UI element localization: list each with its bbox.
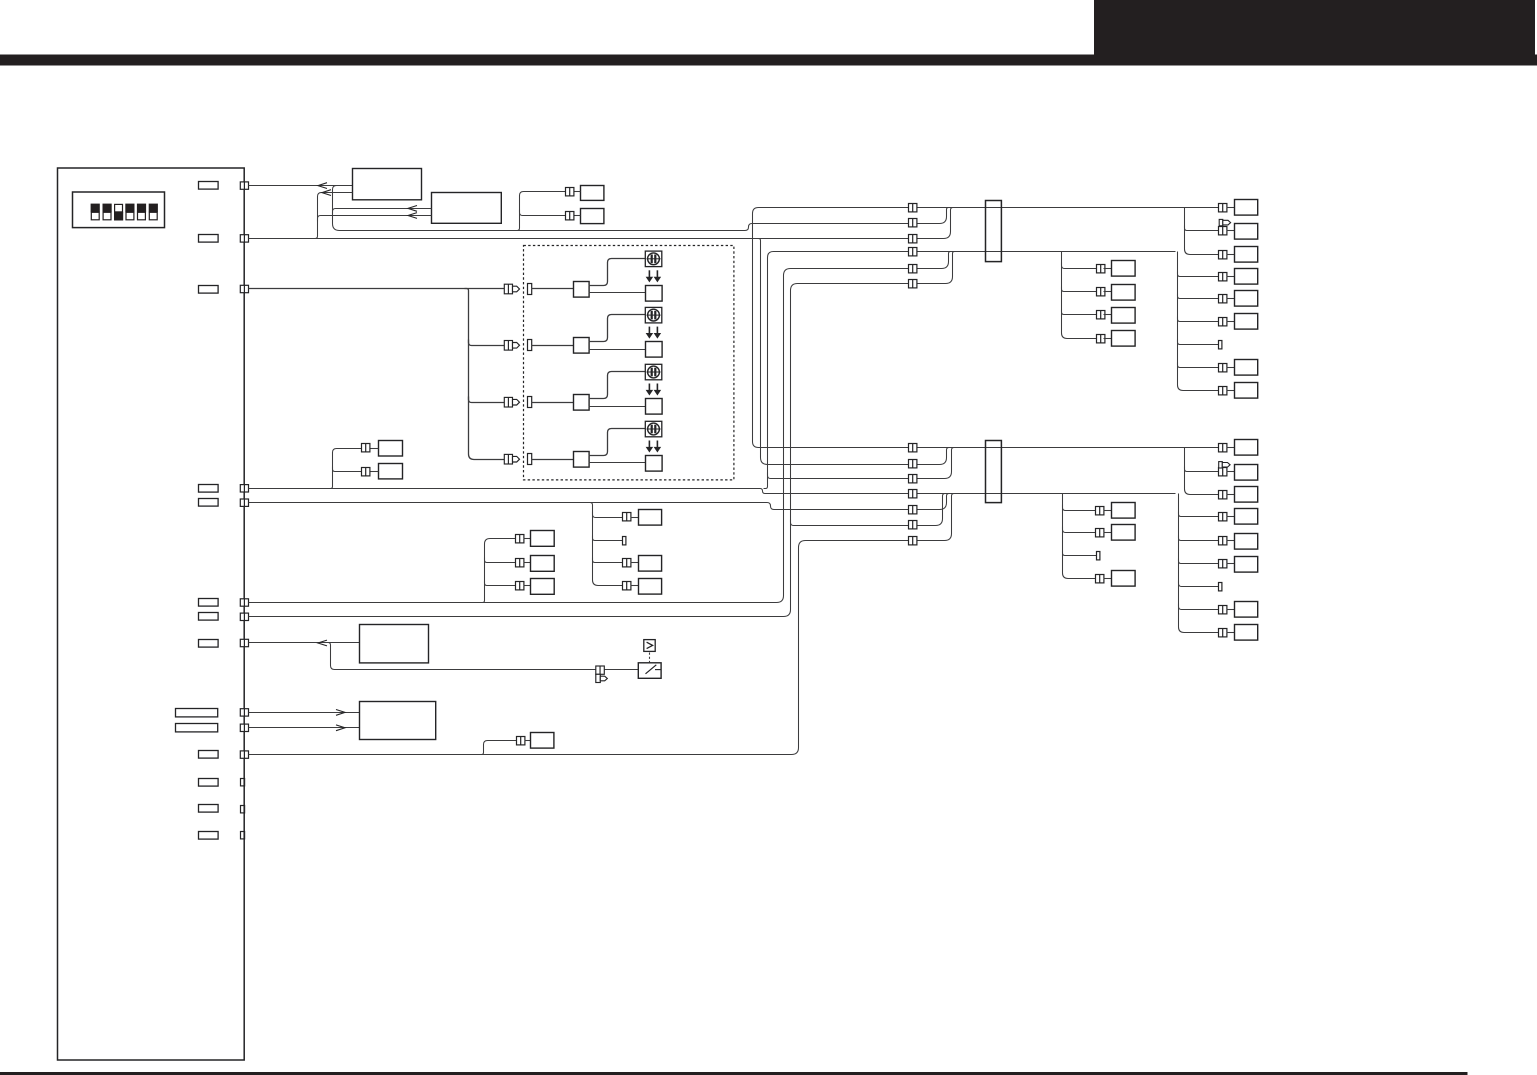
wire L6prime branch xyxy=(791,494,948,526)
wire cluster-B branch 3 xyxy=(593,558,624,563)
edge pin P13 (unwired) xyxy=(241,806,245,813)
wire left-fan LF2 branch y532 xyxy=(1063,527,1097,533)
plug tip above K11 xyxy=(1219,462,1230,468)
harness-1 inline connector C6 xyxy=(909,280,917,288)
edge pin P4 xyxy=(240,485,248,492)
wire branch to CN pair upper xyxy=(329,449,362,489)
connector header CN14 xyxy=(199,832,219,840)
connector header CN2 xyxy=(199,235,219,243)
wire left-fan LF1 branch y314 xyxy=(1062,310,1097,315)
link K5 xyxy=(1227,298,1235,300)
CH3 coupler xyxy=(574,395,590,411)
wire fan F2 branch y321 xyxy=(1178,317,1219,322)
CH4 coupler xyxy=(574,452,590,468)
arrow glyph box G1 xyxy=(644,640,655,652)
wire B1 lower line to riser xyxy=(313,193,353,239)
mid-column connector M6 xyxy=(1096,529,1104,537)
cluster-A box y563 xyxy=(531,556,555,572)
wire fan F3 branch xyxy=(1185,467,1220,472)
wire cluster-A vertical xyxy=(481,539,516,603)
edge pin P10 xyxy=(240,724,248,731)
cluster-A link y585 xyxy=(524,585,531,587)
wire fan F2 branch y298 xyxy=(1178,294,1219,299)
column-B connector K17 xyxy=(1219,606,1227,614)
wire fan F1 vertical xyxy=(1185,208,1220,255)
wire pin7 line / L6 / vertical Ve xyxy=(249,252,957,617)
CH2 twist arrow b xyxy=(654,327,660,338)
remote box R2 xyxy=(581,209,604,224)
wire fan F4 branch y609 xyxy=(1179,604,1219,610)
arrowhead on B2 upper line xyxy=(408,206,417,212)
link K6 xyxy=(1227,321,1235,323)
mid-column device box N5 xyxy=(1112,503,1136,519)
wire branch to CN pair xyxy=(480,741,517,755)
mid-column device box N8 xyxy=(1112,571,1136,587)
wire vertical Vc / bus2 xyxy=(764,252,1176,489)
cluster-B connector y563 xyxy=(623,559,631,567)
remote box R1 xyxy=(581,186,604,201)
connector header CN9 (wide) xyxy=(176,709,218,717)
column-B connector K15 xyxy=(1219,560,1227,568)
wire cluster-B branch pin xyxy=(593,536,624,541)
cluster-B box y517 xyxy=(639,510,662,526)
cluster-B link y585 xyxy=(631,585,639,587)
column-B connector K11 xyxy=(1219,468,1227,476)
column-B device box D14 xyxy=(1235,534,1258,550)
DIP switch S1-2 xyxy=(103,204,112,220)
arrowhead pin10 xyxy=(336,725,345,731)
inline connector J2 xyxy=(566,212,574,220)
column-B connector K10 xyxy=(1219,444,1227,452)
CH1 coupler xyxy=(574,282,590,298)
connector header CN13 xyxy=(199,805,219,813)
wire left-fan LF1 branch y291 xyxy=(1062,287,1097,292)
cluster-A connector y563 xyxy=(516,559,524,567)
link K3 xyxy=(1227,254,1235,256)
wire pin2 line L3 xyxy=(249,208,956,239)
wire fan F2 branch y276 xyxy=(1178,272,1219,277)
control box B2 xyxy=(432,193,502,224)
wire pin4 line / bus2prime xyxy=(249,489,1176,494)
column-A connector K6 xyxy=(1219,318,1227,326)
link J2 to R2 xyxy=(575,215,581,217)
drawer unit box B3 xyxy=(360,625,429,663)
power supply box B1 xyxy=(353,169,422,200)
link M3 xyxy=(1104,314,1112,316)
CH3 noise filter symbol xyxy=(645,364,662,380)
wire pin3 line xyxy=(249,288,505,290)
mid-column connector M3 xyxy=(1097,311,1105,319)
cluster-A link y538 xyxy=(524,538,531,540)
link K14 xyxy=(1227,540,1235,542)
column-A connector K2 xyxy=(1219,227,1227,235)
wire CH3 to module xyxy=(589,406,646,408)
column-A device box D6 xyxy=(1235,314,1258,330)
remote box R3 xyxy=(379,441,403,457)
DIP switch S1-4 xyxy=(125,204,134,220)
wire trunk branch ch3 xyxy=(469,397,505,403)
column-A stub pin K7 xyxy=(1219,341,1222,349)
link M8 xyxy=(1104,578,1112,580)
link J4 to R4 xyxy=(371,471,379,473)
RCA plug PL1 xyxy=(504,284,519,294)
mid-column connector M8 xyxy=(1096,575,1104,583)
column-A connector K1 xyxy=(1219,204,1227,212)
wire L3prime xyxy=(768,448,957,479)
CH2 twist arrow a xyxy=(646,327,652,338)
wire CH1 to module xyxy=(589,292,646,294)
cluster-B box y585 xyxy=(639,579,662,595)
column-A connector K5 xyxy=(1219,295,1227,303)
CH1 twist arrow a xyxy=(646,270,652,281)
CH1 module xyxy=(646,286,663,302)
column-B connector K13 xyxy=(1219,513,1227,521)
cluster-B link y563 xyxy=(631,562,639,564)
mid-column device box N1 xyxy=(1112,261,1136,277)
wire cluster-A branch 2 xyxy=(485,558,516,563)
link K2 xyxy=(1227,230,1235,232)
column-A connector K3 xyxy=(1219,251,1227,259)
CH2 noise filter symbol xyxy=(645,307,662,323)
mid-column connector M1 xyxy=(1097,265,1105,273)
column-B device box D12 xyxy=(1235,487,1258,503)
wire CH2 to filter xyxy=(589,315,646,342)
edge pin P1 xyxy=(240,182,248,189)
connector header CN6 xyxy=(199,599,219,607)
column-A device box D4 xyxy=(1235,269,1258,285)
wire B2 lower line xyxy=(318,216,432,222)
wire left-fan LF2 branch y510 xyxy=(1063,505,1097,511)
DIP switch block S1 outline xyxy=(73,192,165,228)
wire channel trunk xyxy=(465,289,505,460)
column-A device box D2 xyxy=(1235,224,1258,240)
cluster-A connector y585 xyxy=(516,582,524,590)
mid-column device box N3 xyxy=(1112,308,1136,324)
DIP switch S1-5 xyxy=(137,204,146,220)
edge pin P14 (unwired) xyxy=(241,832,245,839)
wire line-A bus xyxy=(333,186,951,231)
DIP switch S1-6 xyxy=(149,204,158,220)
connector header CN1 xyxy=(199,182,219,190)
channel CH3 input pin xyxy=(528,397,532,408)
channel CH2 input pin xyxy=(528,340,532,351)
CH2 coupler xyxy=(574,338,590,354)
mid-column device box N4 xyxy=(1112,331,1136,347)
harness-2 inline connector C11 xyxy=(909,506,917,514)
CH3 module xyxy=(646,399,663,415)
mid-column device box N6 xyxy=(1112,525,1136,541)
arrowhead into pin1 xyxy=(318,183,327,189)
harness-1 inline connector C4 xyxy=(909,248,917,256)
channel CH4 input pin xyxy=(528,454,532,465)
column-B device box D11 xyxy=(1235,465,1258,481)
column-B device box D17 xyxy=(1235,602,1258,618)
wire CH1 input xyxy=(532,288,574,290)
DIP switch S1-3 xyxy=(114,204,123,220)
wire fan F3 vertical xyxy=(1185,448,1220,495)
mid-column stub pin M7 xyxy=(1097,552,1100,560)
wire fan F1 branch r2 xyxy=(1185,226,1220,231)
wire CH4 to filter xyxy=(589,429,646,456)
edge pin P2 xyxy=(240,235,248,242)
wire fan F2 branch y344 xyxy=(1178,340,1219,345)
wire pin9 line xyxy=(249,712,360,714)
wire pin1 to power box xyxy=(249,185,353,187)
mechanism box B4 xyxy=(360,702,436,740)
wire cluster-B vertical xyxy=(588,503,624,586)
harness-1 inline connector C1 xyxy=(909,204,917,212)
wire fan F4 vertical xyxy=(1179,494,1220,633)
link M4 xyxy=(1104,338,1112,340)
link K12 xyxy=(1227,494,1235,496)
harness-2 inline connector C13 xyxy=(909,537,917,545)
wire CH4 input xyxy=(532,459,574,461)
connector header CN5 xyxy=(199,499,219,507)
cluster-A box y585 xyxy=(531,579,555,595)
link J5 to R5 xyxy=(525,740,531,742)
wire left-fan LF1 branch y268 xyxy=(1062,263,1097,269)
wire fan F2 vertical xyxy=(1178,252,1220,391)
channel CH1 input pin xyxy=(528,284,532,295)
column-A connector K8 xyxy=(1219,364,1227,372)
connector header CN3 xyxy=(199,286,219,294)
wire pin10 line xyxy=(249,727,360,729)
column-B device box D15 xyxy=(1235,557,1258,573)
wire fan F4 branch y540 xyxy=(1179,536,1219,541)
wire CH4 to module xyxy=(589,462,646,464)
link K4 xyxy=(1227,276,1235,278)
cable sleeve CV1 xyxy=(986,201,1002,262)
harness-2 inline connector C10 xyxy=(909,490,917,498)
plug tip above K2 xyxy=(1219,219,1230,225)
wire pin8 under-branch xyxy=(326,643,639,670)
mid-column connector M4 xyxy=(1097,335,1105,343)
RCA plug PL3 xyxy=(504,397,519,407)
column-A device box D9 xyxy=(1235,383,1258,399)
cluster-A connector y538 xyxy=(516,535,524,543)
header title bar xyxy=(0,55,1537,66)
wire pin6 line / L5 / vertical Vd xyxy=(249,252,953,603)
wire cluster-A branch 3 xyxy=(485,581,516,586)
wire B2 upper line xyxy=(333,209,432,215)
mid-column connector M5 xyxy=(1096,507,1104,515)
wire fan F2 branch y367 xyxy=(1178,363,1219,368)
CH4 module xyxy=(646,456,663,472)
cluster-A link y563 xyxy=(524,562,531,564)
column-A device box D1 xyxy=(1235,200,1258,216)
link M6 xyxy=(1104,532,1112,534)
CH4 noise filter symbol xyxy=(645,421,662,437)
harness-2 inline connector C7 xyxy=(909,444,917,452)
edge pin P5 xyxy=(240,499,248,506)
link M1 xyxy=(1104,268,1112,270)
edge pin P7 xyxy=(240,613,248,620)
CH1 noise filter symbol xyxy=(645,251,662,267)
harness-1 inline connector C5 xyxy=(909,265,917,273)
inline connector J1 xyxy=(566,188,574,196)
wire pin8 line xyxy=(249,642,360,644)
column-A connector K9 xyxy=(1219,387,1227,395)
harness-1 inline connector C3 xyxy=(909,235,917,243)
connector header CN8 xyxy=(199,640,219,648)
footer rule xyxy=(0,1072,1468,1075)
wire fan F4 branch y563 xyxy=(1179,559,1219,564)
column-B device box D10 xyxy=(1235,440,1258,456)
dashed link G1 to SW1 xyxy=(649,653,651,663)
wire CH2 input xyxy=(532,345,574,347)
mid-column device box N2 xyxy=(1112,285,1136,301)
arrowhead on B2 lower line xyxy=(408,213,417,219)
column-B connector K12 xyxy=(1219,491,1227,499)
column-B stub pin K16 xyxy=(1219,583,1222,591)
cable sleeve CV2 xyxy=(986,441,1002,503)
wire left-fan LF2 vertical xyxy=(1063,494,1097,579)
cluster-A box y538 xyxy=(531,531,555,547)
column-A connector K4 xyxy=(1219,273,1227,281)
wire branch to lower CN pair xyxy=(520,210,566,216)
CH2 module xyxy=(646,342,663,358)
edge pin P3 xyxy=(240,285,248,292)
edge pin P9 xyxy=(240,709,248,716)
cluster-B box y563 xyxy=(639,556,662,572)
column-B device box D18 xyxy=(1235,625,1258,641)
wire CH3 input xyxy=(532,402,574,404)
wire CH3 to filter xyxy=(589,372,646,399)
link M2 xyxy=(1104,291,1112,293)
CH3 twist arrow b xyxy=(654,384,660,395)
dashed isolation block xyxy=(524,246,734,480)
arrowhead on B1 lower line xyxy=(322,190,331,196)
inline connector J4 xyxy=(362,468,370,476)
connector header CN7 xyxy=(199,613,219,621)
detect switch SW1 xyxy=(638,663,661,679)
CH4 twist arrow a xyxy=(646,441,652,452)
edge pin P8 xyxy=(240,639,248,646)
wire trunk branch ch2 xyxy=(469,340,505,346)
column-A device box D3 xyxy=(1235,247,1258,263)
remote box R5 xyxy=(531,733,554,749)
link J3 to R3 xyxy=(371,448,379,450)
cluster-B connector y585 xyxy=(623,582,631,590)
wire left-fan LF1 vertical xyxy=(1062,252,1097,339)
cluster-B connector y517 xyxy=(623,513,631,521)
connector header CN12 xyxy=(199,779,219,787)
wire pin11 line / L7prime xyxy=(249,494,957,755)
column-B connector K18 xyxy=(1219,629,1227,637)
wire CH1 to filter xyxy=(589,259,646,286)
wire cluster-B branch 1 xyxy=(593,512,624,518)
arrowhead into pin8 xyxy=(318,640,327,646)
connector header CN10 (wide) xyxy=(176,724,218,732)
connector header CN4 xyxy=(199,485,219,493)
arrowhead pin9 xyxy=(336,710,345,716)
connector header CN11 xyxy=(199,751,219,759)
link K13 xyxy=(1227,516,1235,518)
link K17 xyxy=(1227,609,1235,611)
link K18 xyxy=(1227,632,1235,634)
RCA plug PL4 xyxy=(504,454,519,464)
inline connector J5 xyxy=(517,737,525,745)
edge pin P11 xyxy=(240,751,248,758)
mid-column connector M2 xyxy=(1097,288,1105,296)
cluster-B link y517 xyxy=(631,517,639,519)
column-B device box D13 xyxy=(1235,509,1258,525)
link K8 xyxy=(1227,367,1235,369)
link J1 to R1 xyxy=(575,191,581,193)
main unit outline xyxy=(58,168,245,1060)
wire branch to CN pair group xyxy=(515,192,566,231)
cluster-B stub pin y540 xyxy=(623,537,626,545)
link K15 xyxy=(1227,563,1235,565)
harness-2 inline connector C12 xyxy=(909,521,917,529)
service plug SP1 xyxy=(596,666,608,683)
wire bus1 / vertical Va / bus1prime xyxy=(753,208,1220,448)
harness-2 inline connector C8 xyxy=(909,460,917,468)
inline connector J3 xyxy=(362,444,370,452)
wire vertical Vb to L2prime xyxy=(757,239,952,465)
edge pin P6 xyxy=(240,599,248,606)
header section box xyxy=(1094,0,1535,55)
wire branch to CN pair lower xyxy=(333,467,362,472)
CH4 twist arrow b xyxy=(654,441,660,452)
link K1 xyxy=(1227,207,1235,209)
CH1 twist arrow b xyxy=(654,270,660,281)
CH3 twist arrow a xyxy=(646,384,652,395)
link K9 xyxy=(1227,390,1235,392)
link K11 xyxy=(1227,471,1235,473)
wire pin5 line / L5prime xyxy=(249,494,952,510)
edge pin P12 (unwired) xyxy=(241,779,245,786)
wire fan F4 branch y586 xyxy=(1179,581,1219,587)
remote box R4 xyxy=(379,464,403,479)
RCA plug PL2 xyxy=(504,341,519,351)
DIP switch S1-1 xyxy=(91,204,100,220)
harness-1 inline connector C2 xyxy=(909,219,917,227)
link M5 xyxy=(1104,510,1112,512)
column-A device box D5 xyxy=(1235,291,1258,307)
harness-2 inline connector C9 xyxy=(909,475,917,483)
column-A device box D8 xyxy=(1235,360,1258,376)
wire CH2 to module xyxy=(589,349,646,351)
wire left-fan LF2 branch y555 xyxy=(1063,551,1097,556)
wire fan F4 branch y516 xyxy=(1179,512,1219,517)
link K10 xyxy=(1227,447,1235,449)
column-B connector K14 xyxy=(1219,537,1227,545)
